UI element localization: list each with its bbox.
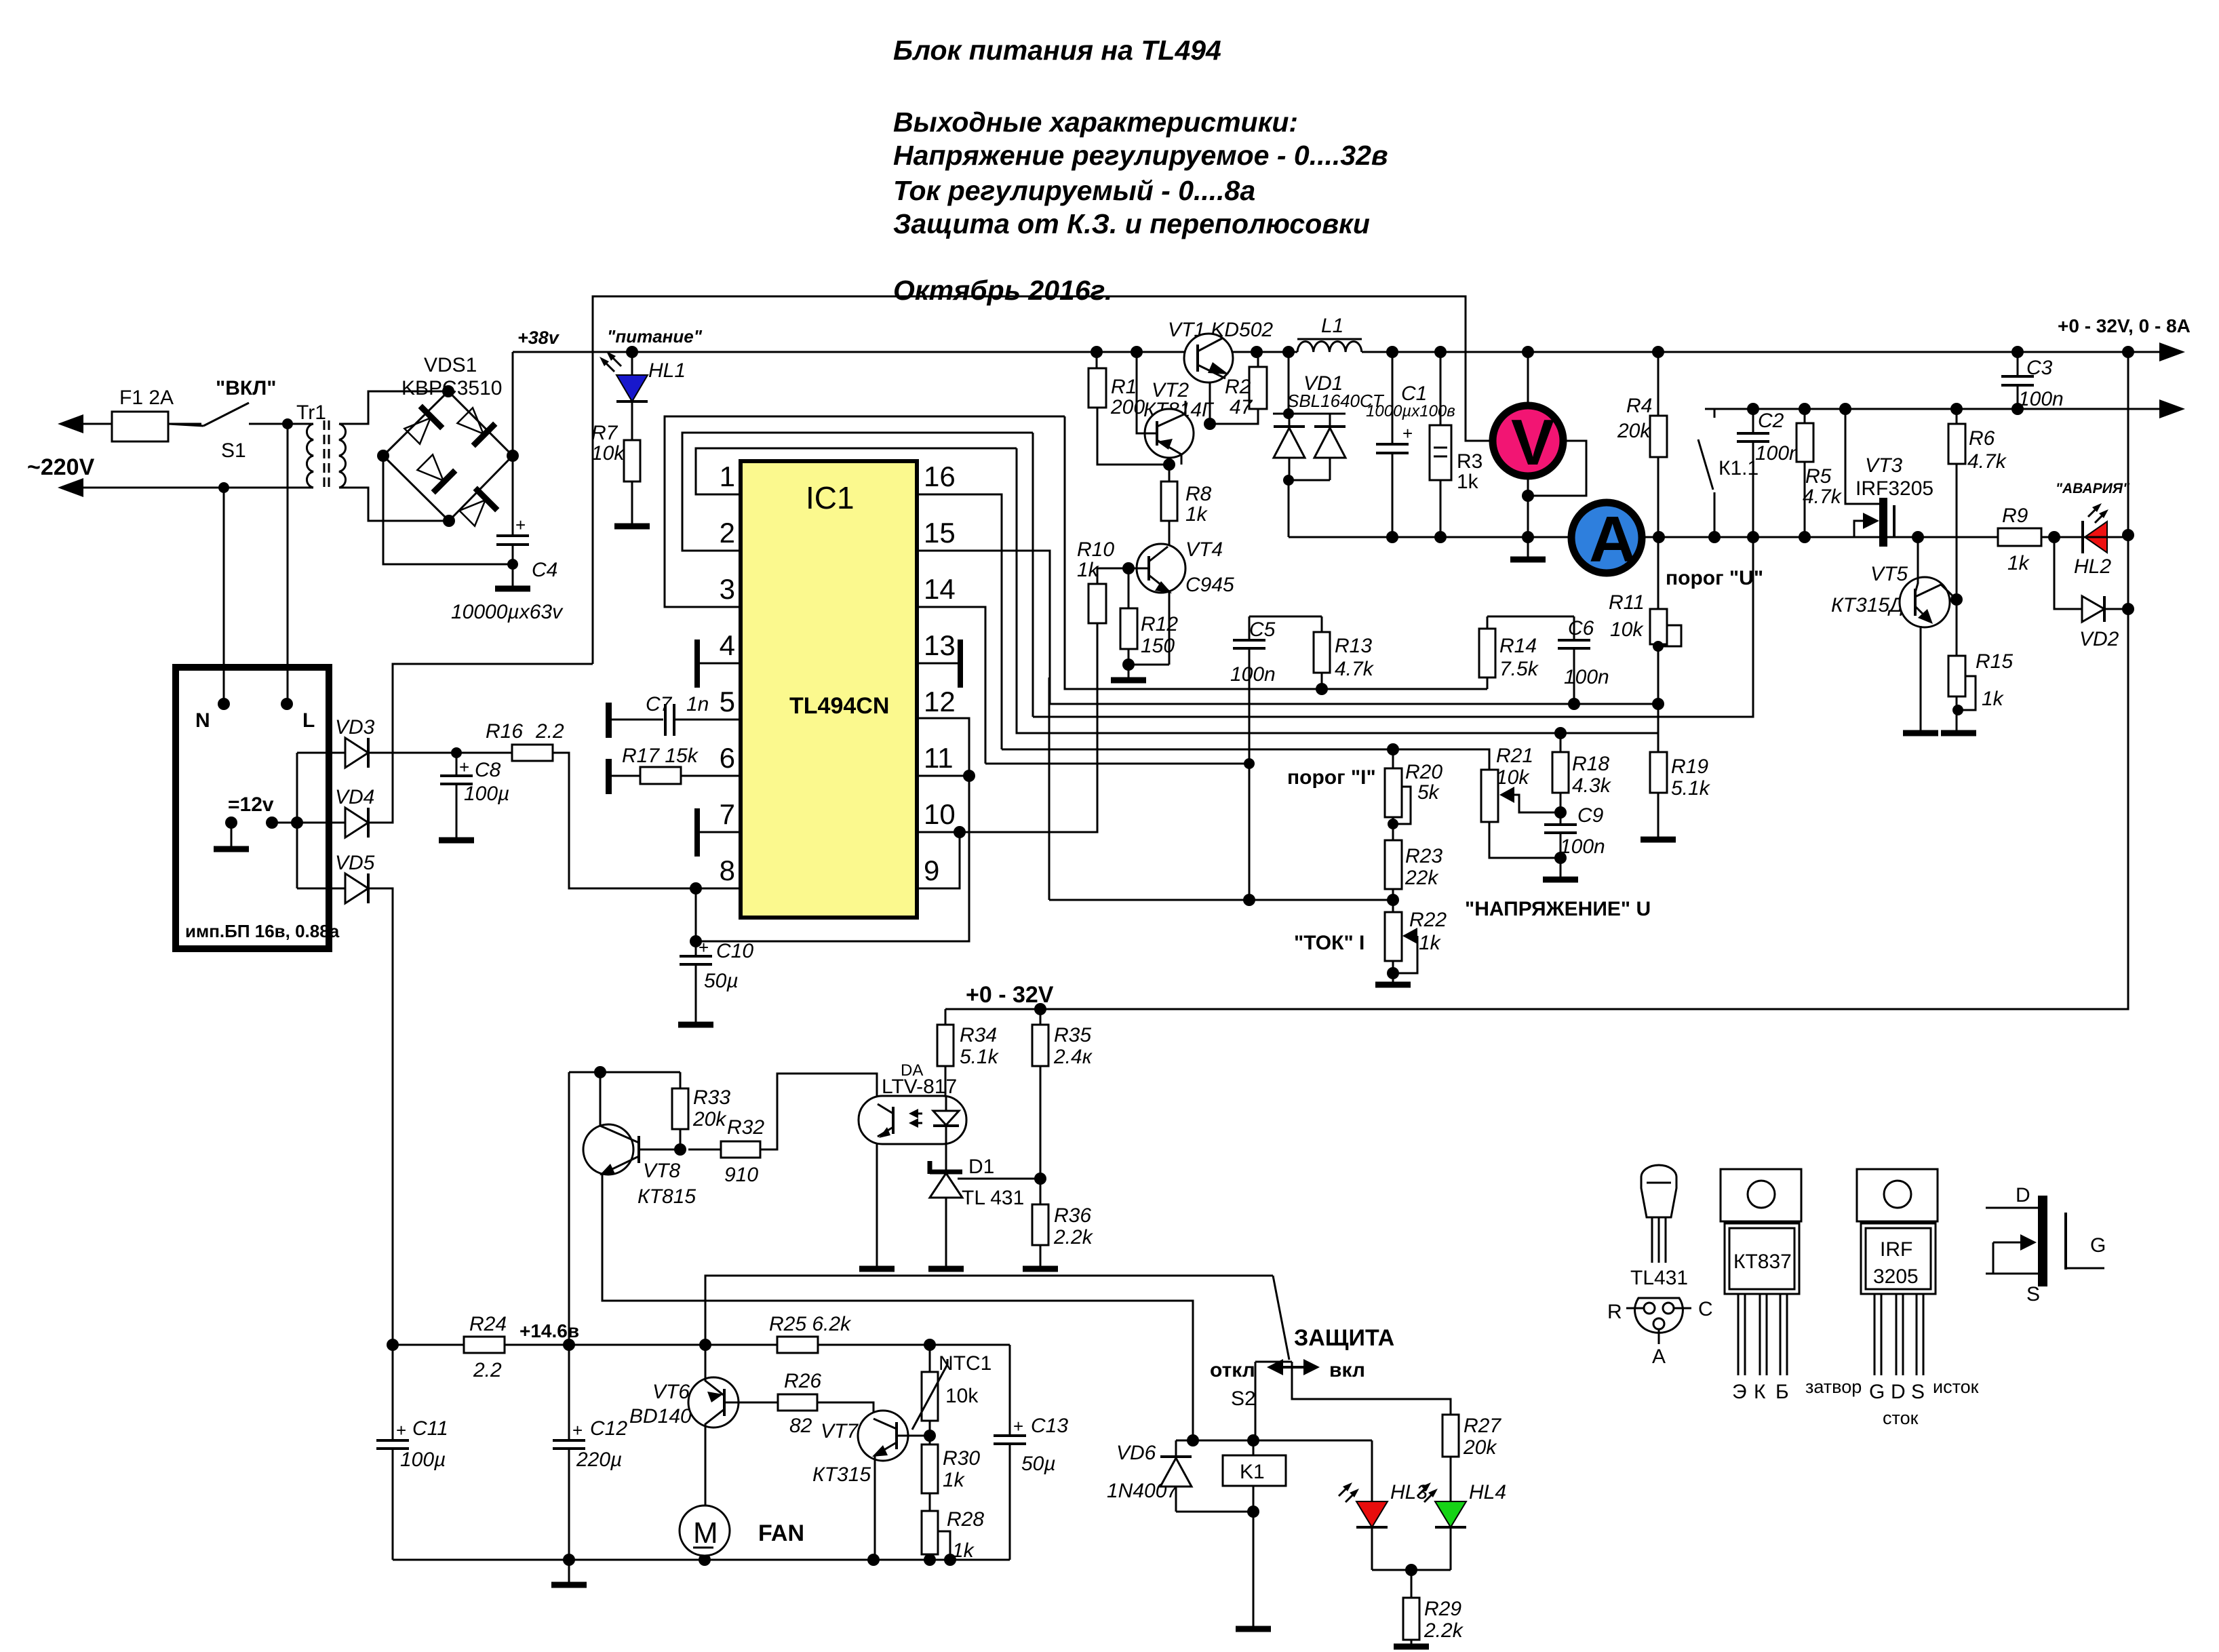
wire: VD5 down to +14.6v node [368,888,393,1345]
svg-text:100n: 100n [2018,388,2064,410]
svg-text:N: N [195,709,210,732]
svg-text:КТ315Д: КТ315Д [1831,594,1904,616]
svg-text:R22: R22 [1409,909,1447,931]
svg-text:R3: R3 [1457,450,1482,473]
wire: line D pin1 row [1017,448,1658,733]
trimmer R11 [1650,609,1667,644]
resistor R12 [1120,608,1137,649]
wire: bridge + to +38v rail [512,352,514,456]
wire: line E pin16 row [1002,749,1489,770]
svg-text:R24: R24 [469,1313,507,1335]
svg-text:R17 15k: R17 15k [622,745,699,767]
wire: S2 feed from +14.6 [705,1276,1273,1345]
svg-text:1k: 1k [943,1469,966,1491]
resistor R36 [1032,1204,1048,1245]
svg-text:D: D [1891,1381,1906,1403]
resistor R6 [1948,424,1965,464]
svg-text:1k: 1k [1982,688,2005,710]
svg-text:VDS1: VDS1 [424,354,477,376]
svg-text:R4: R4 [1626,395,1652,417]
svg-text:R8: R8 [1185,483,1212,505]
svg-text:S: S [1911,1381,1925,1403]
svg-text:=12v: =12v [228,793,274,816]
wire: line F pin14 row [985,763,1249,765]
svg-text:2.4к: 2.4к [1053,1046,1093,1068]
motor M FAN [680,1506,730,1556]
resistor R7 [631,401,633,440]
svg-text:VT5: VT5 [1870,563,1908,585]
resistor R14 [1479,629,1495,677]
svg-text:7: 7 [720,798,735,830]
svg-text:5.1k: 5.1k [1671,777,1711,800]
svg-text:R: R [1607,1301,1622,1323]
svg-text:R15: R15 [1976,650,2013,673]
resistor R2 [1249,367,1267,409]
resistor R33 [672,1088,688,1129]
wire: +38V rail [513,351,2178,353]
svg-text:R32: R32 [727,1116,764,1139]
resistor R24 [464,1337,505,1353]
svg-text:11: 11 [924,742,954,774]
svg-text:R30: R30 [943,1447,980,1470]
wire: AC input bottom line with arrow [64,487,313,489]
svg-text:V: V [1511,406,1554,479]
wire: output minus rail [1714,408,2178,410]
svg-text:+: + [572,1420,583,1440]
wire: pin1 loop over IC [696,448,1017,494]
svg-text:TL494CN: TL494CN [789,693,889,719]
svg-text:ЗАЩИТА: ЗАЩИТА [1294,1325,1394,1351]
resistor R35 [1032,1025,1048,1066]
svg-text:R21: R21 [1496,745,1533,767]
svg-text:+: + [459,757,469,777]
svg-text:BD140: BD140 [629,1405,692,1428]
wire: secondary to bridge [339,391,449,521]
svg-text:сток: сток [1883,1408,1919,1428]
svg-text:10k: 10k [591,442,625,465]
capacitor C8 [451,747,462,758]
capacitor C13 [1009,1345,1011,1560]
resistor R5 [1796,423,1813,462]
LED HL1 [631,352,633,375]
resistor R18 [1552,752,1569,793]
resistor R27 [1442,1415,1459,1457]
svg-text:C10: C10 [716,940,753,962]
voltmeter V [1527,352,1529,403]
svg-text:C7: C7 [646,693,673,715]
relay coil K1 [1176,1440,1372,1442]
svg-text:IRF: IRF [1880,1238,1912,1261]
svg-text:L: L [302,709,315,732]
svg-text:FAN: FAN [758,1520,804,1546]
svg-text:HL2: HL2 [2074,555,2111,578]
svg-text:100n: 100n [1230,663,1276,686]
svg-text:910: 910 [724,1164,758,1186]
svg-text:6: 6 [720,742,735,774]
svg-text:VT4: VT4 [1185,538,1223,561]
svg-text:12: 12 [924,686,956,717]
ground (PSU internal) [225,817,237,829]
svg-text:4: 4 [720,629,735,661]
ground (VT5 emitter) [1903,730,1938,736]
svg-text:22k: 22k [1405,867,1439,889]
svg-text:16: 16 [924,460,956,492]
svg-text:IC1: IC1 [806,480,855,515]
wire: pin10 row to R10 [960,623,1097,832]
svg-text:TL 431: TL 431 [962,1187,1024,1209]
resistor R29 [1411,1570,1413,1598]
ground (C9/R21) [1543,877,1578,883]
svg-text:R29: R29 [1424,1598,1461,1620]
svg-text:R11: R11 [1609,591,1645,614]
ammeter A [1571,503,1642,573]
svg-text:Блок питания на TL494: Блок питания на TL494 [893,35,1221,66]
wire: line C pin2 row [1032,433,1034,717]
svg-text:+: + [396,1420,406,1440]
svg-text:200: 200 [1110,396,1145,418]
svg-text:R10: R10 [1077,538,1114,561]
resistor R1 [1088,368,1106,408]
svg-text:R23: R23 [1405,845,1442,867]
svg-text:+0 - 32V, 0 - 8A: +0 - 32V, 0 - 8A [2058,315,2191,336]
svg-text:1k: 1k [952,1539,975,1562]
wire: pin3 loop over IC [665,416,1065,607]
trimmer R15 [1948,656,1965,696]
wire: VT8 collector line [569,1072,680,1345]
svg-text:C12: C12 [590,1417,627,1440]
svg-text:M: M [693,1516,718,1550]
svg-text:5.1k: 5.1k [960,1046,1000,1068]
svg-text:VD5: VD5 [335,852,375,874]
diode VD2 [2054,537,2082,609]
svg-text:S1: S1 [221,439,246,462]
svg-text:VT7: VT7 [821,1420,859,1442]
svg-text:D1: D1 [968,1156,994,1178]
package KT837 TO-220 [1721,1169,1801,1221]
svg-text:2.2k: 2.2k [1053,1226,1094,1248]
svg-text:VD4: VD4 [335,786,374,808]
svg-text:7.5k: 7.5k [1499,658,1539,680]
svg-text:10000µх63v: 10000µх63v [451,601,564,623]
svg-text:R18: R18 [1572,753,1609,775]
wire: pins 9-10 tie [917,832,960,888]
svg-text:R2: R2 [1225,376,1251,398]
svg-text:R25 6.2k: R25 6.2k [769,1313,852,1335]
svg-text:4.7k: 4.7k [1967,450,2007,473]
svg-text:4.3k: 4.3k [1572,774,1612,797]
MOSFET symbol legend [2038,1196,2047,1286]
resistor R17 on pin 6 [611,775,741,777]
svg-text:VT8: VT8 [643,1160,680,1182]
wire: right feedback vertical to +0-32V line [945,352,2128,1009]
svg-text:10k: 10k [1496,766,1530,789]
relay contact K1.1 [1698,409,1714,537]
resistor R16 [512,745,553,761]
bridge diode lower-right [456,488,497,530]
svg-text:Октябрь 2016г.: Октябрь 2016г. [893,275,1112,306]
resistor R9 [1998,528,2041,546]
svg-text:IRF3205: IRF3205 [1855,477,1933,500]
LED HL3 [1371,1440,1373,1501]
resistor R4 [1650,416,1667,457]
svg-text:C4: C4 [532,559,557,581]
svg-text:9: 9 [924,854,939,886]
svg-text:исток: исток [1933,1377,1979,1397]
svg-text:R35: R35 [1054,1024,1091,1046]
svg-text:КТ837: КТ837 [1733,1251,1792,1273]
svg-text:1000µх100в: 1000µх100в [1366,402,1455,420]
svg-text:1k: 1k [2007,552,2030,574]
svg-text:4.7k: 4.7k [1335,658,1375,680]
svg-text:10: 10 [924,798,956,830]
svg-text:100n: 100n [1560,835,1605,858]
svg-text:КТ815: КТ815 [637,1185,696,1208]
resistor R19 [1650,752,1667,793]
svg-text:47: 47 [1230,396,1253,418]
resistor R26 [778,1394,817,1411]
pin4 stub and tab [699,663,741,665]
svg-text:+14.6в: +14.6в [519,1320,579,1341]
wire: pin14 drop [917,607,985,764]
svg-text:100µ: 100µ [400,1449,446,1471]
svg-text:C9: C9 [1577,804,1604,827]
fuse F1 [112,412,168,441]
svg-text:3: 3 [720,573,735,605]
svg-text:"ТОК" I: "ТОК" I [1294,932,1364,954]
ground (fan section) [568,1560,570,1585]
shunt reference D1 TL431 [945,1144,947,1172]
wire: +14.6v line with R24 R25 [387,1339,399,1351]
svg-text:VD6: VD6 [1116,1442,1156,1464]
svg-text:VD3: VD3 [335,716,375,739]
svg-text:4.7k: 4.7k [1803,486,1843,508]
svg-text:Защита от К.З. и переполюсовки: Защита от К.З. и переполюсовки [893,208,1370,239]
wire: pin15 drop [917,551,1050,704]
svg-text:+: + [1013,1416,1023,1436]
wire: opto transistor emitter to ground [876,1144,878,1269]
svg-text:VD2: VD2 [2079,628,2119,650]
capacitor C11 [392,1345,394,1560]
wire: diode feed bus inside box [297,753,345,888]
svg-text:1n: 1n [686,693,709,715]
svg-text:20k: 20k [1617,420,1651,442]
svg-text:HL4: HL4 [1469,1481,1506,1503]
svg-text:Выходные характеристики:: Выходные характеристики: [893,106,1298,138]
wire: threshold line B pin15 row [1050,703,1658,705]
svg-text:"АВАРИЯ": "АВАРИЯ" [2056,481,2130,496]
wire: frame from +16v up and across to V meter [593,296,1491,664]
svg-text:КТ315: КТ315 [812,1463,871,1486]
svg-text:R36: R36 [1054,1204,1091,1227]
ground (C4) [495,586,530,592]
svg-text:82: 82 [789,1415,812,1437]
package TL431 TO-92 side view [1641,1165,1676,1217]
capacitor C12 [568,1345,570,1560]
switch S1 [203,403,249,426]
wire: 12v output node [266,817,278,829]
svg-text:+: + [699,937,709,958]
ground (R7) [631,481,633,526]
svg-text:имп.БП 16в, 0.88а: имп.БП 16в, 0.88а [185,921,340,941]
svg-text:100µ: 100µ [464,783,509,805]
svg-text:TL431: TL431 [1630,1267,1688,1289]
svg-text:5: 5 [720,686,735,717]
svg-text:C13: C13 [1031,1415,1068,1437]
svg-text:R14: R14 [1499,635,1537,657]
svg-text:1: 1 [720,460,735,492]
ground (R15) [1941,730,1976,736]
pin13 stub and tab [917,663,959,665]
svg-text:порог "I": порог "I" [1287,766,1376,789]
svg-text:+: + [1402,423,1413,444]
svg-text:20k: 20k [1463,1436,1497,1459]
svg-text:R19: R19 [1671,755,1708,778]
svg-text:R27: R27 [1464,1415,1501,1437]
svg-text:R26: R26 [784,1370,821,1392]
svg-text:Ток регулируемый - 0....8а: Ток регулируемый - 0....8а [893,175,1255,206]
PSU module box имп.БП [176,667,329,949]
svg-text:G: G [2090,1234,2106,1257]
svg-text:150: 150 [1141,635,1175,657]
svg-text:L1: L1 [1321,315,1343,337]
svg-text:VT3: VT3 [1865,454,1902,477]
svg-text:50µ: 50µ [1021,1453,1056,1475]
wire: pins 11/12 bus to C10 node [696,718,969,941]
svg-text:1k: 1k [1457,471,1479,493]
wire: R16 to pin8 [553,753,696,888]
svg-text:R6: R6 [1969,427,1995,450]
bridge diode upper-right [454,404,495,446]
bridge diode upper-left [401,406,442,448]
svg-text:К: К [1754,1381,1766,1403]
svg-text:Б: Б [1775,1381,1789,1403]
svg-text:C11: C11 [412,1417,448,1440]
IC1 TL494CN [741,461,917,918]
svg-text:20k: 20k [692,1108,727,1130]
svg-text:C: C [1698,1298,1713,1320]
wire: threshold line A pin3 row [1065,416,1487,689]
resistor R34 [937,1025,954,1066]
svg-text:100n: 100n [1564,666,1609,688]
svg-text:HL1: HL1 [648,359,686,382]
svg-text:D: D [2016,1184,2030,1206]
resistor R23 [1385,840,1402,889]
svg-text:3205: 3205 [1873,1265,1919,1288]
svg-text:"питание": "питание" [607,326,703,347]
svg-text:Э: Э [1732,1381,1747,1403]
svg-text:14: 14 [924,573,956,605]
svg-text:C5: C5 [1249,618,1276,641]
wire: pin16 drop to threshold line [917,494,1002,749]
svg-text:1k: 1k [1185,503,1209,526]
svg-text:"НАПРЯЖЕНИЕ" U: "НАПРЯЖЕНИЕ" U [1465,898,1651,920]
svg-text:10k: 10k [945,1385,979,1407]
wire: drops to PSU module N and L [224,424,288,704]
svg-text:порог "U": порог "U" [1666,567,1763,589]
svg-text:R16: R16 [486,720,523,743]
svg-text:+: + [515,515,526,535]
svg-text:2.2: 2.2 [473,1359,502,1381]
wire: LED common to R29 [1372,1569,1451,1571]
ground (K1) [1236,1626,1271,1632]
svg-text:2.2k: 2.2k [1423,1619,1464,1642]
svg-text:50µ: 50µ [704,970,739,992]
svg-text:A: A [1589,503,1636,576]
svg-text:R13: R13 [1335,635,1372,657]
svg-text:VT6: VT6 [652,1381,690,1403]
svg-text:A: A [1652,1345,1666,1368]
wire: V meter to ground [1527,479,1529,559]
wire: bridge - to C4 bottom node [383,456,513,564]
capacitor C4 [512,456,514,589]
LED HL4 [1450,1457,1452,1501]
svg-text:220µ: 220µ [576,1449,622,1471]
svg-text:2: 2 [720,517,735,549]
svg-text:8: 8 [720,854,735,886]
svg-text:R7: R7 [591,422,618,444]
svg-text:C2: C2 [1758,410,1784,432]
resistor R10 [1088,584,1106,623]
ground (C8) [439,838,474,844]
svg-text:откл: откл [1210,1359,1255,1381]
resistor R32 [721,1141,760,1158]
resistor R8 [1161,481,1177,521]
svg-text:~220V: ~220V [27,454,95,480]
svg-text:K1: K1 [1240,1461,1265,1483]
ground (C10) [678,1022,713,1028]
wire: bottom common of fan section [393,1559,1010,1561]
svg-text:S2: S2 [1231,1388,1256,1410]
wire: V meter sense loop [1528,441,1586,496]
trimmer R28 [922,1511,938,1554]
svg-text:R33: R33 [693,1086,730,1109]
wire: current-set line to R22 [1049,677,1393,900]
svg-text:Напряжение регулируемое - 0...: Напряжение регулируемое - 0....32в [893,140,1388,171]
resistor R30 [922,1444,938,1493]
svg-text:Tr1: Tr1 [296,401,326,424]
svg-text:"ВКЛ": "ВКЛ" [216,377,276,399]
svg-text:1k: 1k [1419,932,1442,954]
wire: pin2 loop over IC [682,433,1033,551]
package TL431 bottom view [1635,1298,1683,1333]
svg-text:вкл: вкл [1329,1359,1365,1381]
svg-text:C8: C8 [475,759,501,781]
capacitor C10 [695,941,697,1025]
svg-text:R1: R1 [1111,376,1137,398]
svg-text:+38v: +38v [517,328,560,348]
capacitor C7 on pin 5 [611,719,741,721]
svg-text:S: S [2026,1283,2040,1305]
svg-text:G: G [1869,1381,1885,1403]
node: junction dots on AC lines [282,418,293,429]
wire: AC input top line with arrow [64,424,203,426]
svg-text:R12: R12 [1141,613,1178,635]
svg-text:C945: C945 [1185,574,1234,596]
svg-text:R9: R9 [2002,505,2028,527]
package IRF3205 TO-220 [1857,1169,1938,1221]
svg-text:R34: R34 [960,1024,997,1046]
svg-text:C6: C6 [1568,617,1594,640]
svg-text:R20: R20 [1405,761,1442,783]
svg-text:F1 2A: F1 2A [119,387,174,409]
svg-text:15: 15 [924,517,956,549]
wire: pin8 node [696,888,741,941]
resistor R3 (shunt) [1430,425,1451,480]
wire: output GND bus [1289,536,1998,538]
svg-text:5k: 5k [1417,781,1440,804]
switch S2 [1255,1276,1451,1440]
resistor R13 [1314,632,1330,673]
